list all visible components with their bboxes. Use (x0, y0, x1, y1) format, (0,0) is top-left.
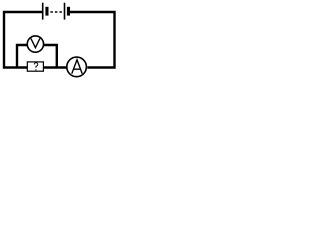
voltmeter circle (27, 36, 43, 52)
unknown resistor glyph ? dot (35, 69, 36, 70)
ammeter letter A (72, 60, 82, 74)
battery cell 2 long thin plate (64, 3, 66, 20)
voltmeter letter V (31, 38, 40, 47)
unknown resistor ? box (27, 62, 43, 71)
wire: voltmeter branch left (junction to circle) (17, 45, 27, 68)
battery cell 2 short thick plate (67, 7, 70, 16)
battery cell 1 short thick plate (45, 7, 48, 16)
unknown resistor glyph ? (34, 63, 38, 68)
ammeter circle (67, 57, 87, 77)
wire: bottom middle, ? box to ammeter (44, 66, 68, 68)
wire: battery left terminal, top wire, left side, bottom to ? box (4, 12, 42, 68)
battery cell 1 long thin plate (42, 3, 44, 20)
background (0, 0, 120, 86)
wire: voltmeter branch right (circle to junction) (44, 45, 57, 68)
battery dashed link wire (50, 11, 63, 13)
wire: battery right terminal, top wire, right side, bottom to ammeter (70, 12, 115, 68)
